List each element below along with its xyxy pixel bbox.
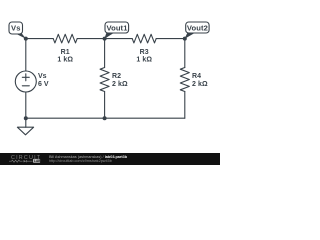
svg-text:http://circuitlab.com/c9mshwk2: http://circuitlab.com/c9mshwk2pw45b bbox=[49, 159, 112, 163]
svg-text:2 kΩ: 2 kΩ bbox=[112, 81, 128, 88]
resistor R3 bbox=[132, 34, 156, 43]
ground symbol bbox=[17, 127, 33, 135]
wire R2 top lead bbox=[104, 39, 106, 68]
node flag Vs box bbox=[9, 22, 23, 34]
resistor R4 bbox=[180, 68, 189, 92]
wire source top lead bbox=[25, 39, 27, 71]
svg-text:Vout1: Vout1 bbox=[106, 23, 128, 32]
wire ground stem bbox=[25, 118, 27, 127]
voltage source minus sign bbox=[22, 85, 29, 87]
junction dot node Vs bbox=[24, 37, 28, 41]
node flag Vout2 box bbox=[186, 22, 209, 33]
wire source bottom lead bbox=[25, 92, 27, 118]
svg-text:R1: R1 bbox=[61, 49, 70, 56]
watermark bar bbox=[0, 153, 220, 165]
wire top rail right segment bbox=[156, 38, 185, 40]
junction dot node Vout2 bbox=[183, 37, 187, 41]
svg-text:Vs: Vs bbox=[11, 24, 21, 33]
node flag Vout1 box bbox=[105, 22, 129, 33]
svg-text:R4: R4 bbox=[192, 73, 201, 80]
junction dot R2 bottom bbox=[103, 116, 107, 120]
svg-text:2 kΩ: 2 kΩ bbox=[192, 81, 208, 88]
watermark logo diode bbox=[24, 160, 27, 162]
wire R2 bottom lead bbox=[104, 92, 106, 119]
node flag Vs tail bbox=[14, 33, 27, 39]
svg-text:Vout2: Vout2 bbox=[187, 23, 208, 32]
node flag Vout2 tail bbox=[185, 33, 196, 39]
wire R4 top lead bbox=[184, 39, 186, 68]
svg-text:R3: R3 bbox=[140, 49, 149, 56]
junction dot ground bbox=[24, 116, 28, 120]
voltage source plus sign bbox=[22, 74, 29, 81]
wire bottom rail bbox=[26, 117, 185, 119]
watermark logo resistor zigzag bbox=[9, 160, 23, 162]
wire R4 bottom lead bbox=[184, 92, 186, 119]
resistor R2 bbox=[100, 68, 109, 92]
node flag Vout1 tail bbox=[104, 33, 114, 39]
resistor R1 bbox=[53, 34, 77, 43]
svg-text:6 V: 6 V bbox=[38, 81, 49, 88]
svg-text:LAB: LAB bbox=[34, 159, 41, 163]
junction dot node Vout1 bbox=[103, 37, 107, 41]
svg-text:R2: R2 bbox=[112, 73, 121, 80]
voltage source Vs circle bbox=[15, 71, 36, 92]
wire top rail left segment bbox=[26, 38, 53, 40]
svg-text:1 kΩ: 1 kΩ bbox=[136, 57, 152, 64]
watermark logo LAB badge bbox=[33, 159, 40, 163]
svg-text:Vs: Vs bbox=[38, 73, 47, 80]
svg-text:1 kΩ: 1 kΩ bbox=[57, 57, 73, 64]
wire top rail middle segment bbox=[77, 38, 132, 40]
